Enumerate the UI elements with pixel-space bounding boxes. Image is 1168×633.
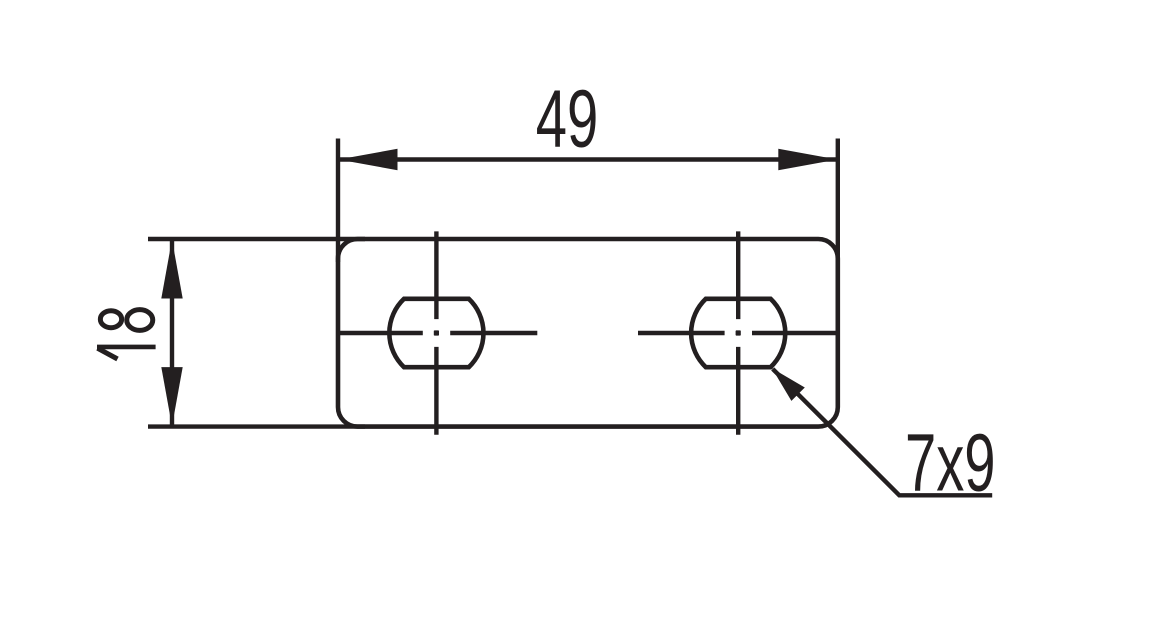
leader line 7x9 — [773, 369, 993, 495]
hole H1 (left slot 7x9) — [389, 299, 483, 367]
dim 49 extension line right — [836, 139, 840, 263]
hole H2 (right slot 7x9) — [691, 299, 785, 367]
centerline H1 vertical — [434, 231, 438, 434]
dim 18 dimension line — [170, 239, 174, 427]
leader arrow — [772, 368, 805, 401]
dim text 18 digit 8 — [100, 310, 152, 331]
dim 18 extension line top — [148, 237, 365, 241]
centerline H2 vertical — [736, 231, 740, 434]
dim 18 extension line bottom — [148, 424, 365, 428]
dim text 18 digit 1 — [97, 347, 156, 359]
dim 49 arrow left — [339, 149, 398, 170]
dim 49 dimension line — [338, 157, 838, 161]
dim 18 arrow up — [161, 240, 182, 299]
plate outline — [338, 239, 838, 427]
dim 18 arrow down — [161, 367, 182, 426]
dim 49 arrow right — [778, 149, 837, 170]
centerline H1 horizontal — [338, 331, 537, 335]
svg-text:7x9: 7x9 — [905, 416, 996, 508]
svg-text:49: 49 — [536, 72, 598, 164]
centerline H2 horizontal — [638, 331, 840, 335]
dim 49 extension line left — [336, 139, 340, 263]
